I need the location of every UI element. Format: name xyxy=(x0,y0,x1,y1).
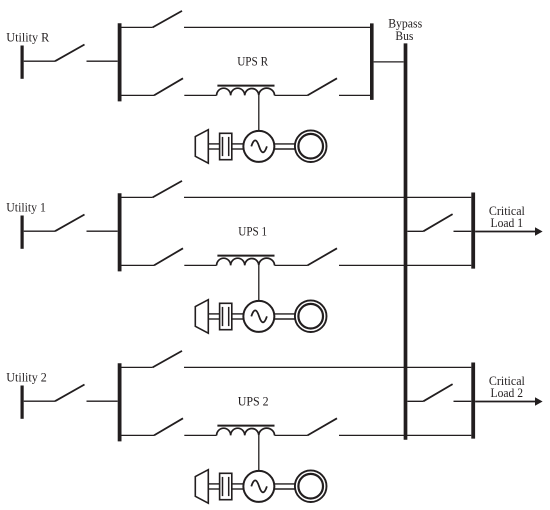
wire: input bus to bypass breaker 1 xyxy=(122,196,153,198)
UPS R input breaker blade xyxy=(154,78,183,95)
wire: input breaker to inductor R xyxy=(184,94,216,96)
UPS 1 input bus xyxy=(118,193,122,271)
svg-text:Utility R: Utility R xyxy=(6,31,50,45)
load breaker 1 blade xyxy=(423,214,452,231)
svg-text:Utility 2: Utility 2 xyxy=(6,371,47,385)
arrow to Critical Load 2 xyxy=(475,397,542,406)
svg-text:UPS 2: UPS 2 xyxy=(238,394,269,408)
Utility R source bus xyxy=(21,46,24,79)
wire: inductor to output breaker R xyxy=(275,94,308,96)
clutch plates 1 xyxy=(223,307,229,326)
wire: bypass branch 2 xyxy=(184,366,471,368)
wire: output breaker 2 to output bus xyxy=(339,434,471,436)
Critical Load 2 bus xyxy=(471,363,475,439)
UPS R input bus xyxy=(118,23,122,101)
svg-text:Bus: Bus xyxy=(395,29,413,43)
flywheel outer rim 1 xyxy=(295,300,327,332)
wire: UPS R output bus to Bypass Bus xyxy=(374,61,404,63)
wire: input bus to UPS R input breaker xyxy=(122,94,155,96)
shaft: engine to clutch R xyxy=(208,144,220,149)
label Critical Load 2 xyxy=(489,374,525,400)
svg-text:Load 2: Load 2 xyxy=(491,386,524,400)
wire: drop from inductor 2 to generator xyxy=(258,435,260,471)
inductor LR winding xyxy=(217,88,275,95)
bypass breaker 1 blade xyxy=(153,181,182,198)
AC motor-generator G2 xyxy=(243,471,274,502)
wire: input bus to bypass breaker 2 xyxy=(122,366,153,368)
wire: input bus to bypass breaker R xyxy=(122,26,153,28)
Utility 1 disconnect switch blade xyxy=(55,215,85,232)
wire: disconnect switch to UPS 1 input bus xyxy=(87,230,118,232)
Utility 1 source bus xyxy=(21,216,24,249)
UPS 1 input breaker blade xyxy=(154,248,183,265)
Bypass Bus xyxy=(404,43,408,439)
load breaker 2 blade xyxy=(423,384,452,401)
sine symbol inside G1 xyxy=(251,310,267,322)
flywheel inner rim 1 xyxy=(298,304,323,329)
wire: input bus to UPS 2 input breaker xyxy=(122,434,155,436)
Utility R disconnect switch blade xyxy=(55,45,85,62)
wire: bypass branch 1 xyxy=(184,196,471,198)
AC motor-generator GR xyxy=(243,131,274,162)
AC motor-generator G1 xyxy=(243,301,274,332)
wire: Utility R to disconnect switch xyxy=(24,60,55,62)
wire: Bypass Bus to load breaker 2 xyxy=(407,400,423,402)
wire: inductor to output breaker 1 xyxy=(275,264,308,266)
sine symbol inside GR xyxy=(251,140,267,152)
svg-text:UPS R: UPS R xyxy=(237,54,268,68)
Critical Load 1 bus xyxy=(471,193,475,269)
svg-text:Load 1: Load 1 xyxy=(491,216,524,230)
inductor L2 winding xyxy=(217,428,275,435)
UPS R output breaker blade xyxy=(308,78,338,95)
wire: load breaker 2 to Critical Load 2 bus xyxy=(454,400,472,402)
Utility 2 source bus xyxy=(21,386,24,419)
shaft: clutch to generator R xyxy=(232,144,244,149)
svg-text:UPS 1: UPS 1 xyxy=(238,224,267,238)
shaft: generator to flywheel 2 xyxy=(274,484,295,489)
Bypass Bus label xyxy=(388,16,422,43)
flywheel outer rim 2 xyxy=(295,470,327,502)
sine symbol inside G2 xyxy=(251,480,267,492)
shaft: generator to flywheel 1 xyxy=(274,314,295,319)
inductor L1 core bar xyxy=(217,255,274,257)
flywheel inner rim 2 xyxy=(298,474,323,499)
clutch / coupling box R xyxy=(220,133,232,159)
shaft: engine to clutch 1 xyxy=(208,314,220,319)
UPS 1 output breaker blade xyxy=(308,248,338,265)
Utility 2 disconnect switch blade xyxy=(55,385,85,402)
inductor L1 winding xyxy=(217,258,275,265)
shaft: clutch to generator 1 xyxy=(232,314,244,319)
shaft: engine to clutch 2 xyxy=(208,484,220,489)
inductor LR core bar xyxy=(217,85,274,87)
flywheel inner rim R xyxy=(298,134,323,159)
clutch / coupling box 1 xyxy=(220,303,232,329)
shaft: clutch to generator 2 xyxy=(232,484,244,489)
UPS 2 input breaker blade xyxy=(154,418,183,435)
inductor L2 core bar xyxy=(217,425,274,427)
wire: Utility 1 to disconnect switch xyxy=(24,230,55,232)
flywheel outer rim R xyxy=(295,130,327,162)
wire: input breaker to inductor 1 xyxy=(184,264,216,266)
clutch plates 2 xyxy=(223,477,229,496)
bypass breaker R blade xyxy=(153,11,182,28)
wire: drop from inductor R to generator xyxy=(258,95,260,131)
wire: inductor to output breaker 2 xyxy=(275,434,308,436)
label Critical Load 1 xyxy=(489,204,525,230)
wire: drop from inductor 1 to generator xyxy=(258,265,260,301)
wire: input breaker to inductor 2 xyxy=(184,434,216,436)
wire: load breaker 1 to Critical Load 1 bus xyxy=(454,230,472,232)
UPS 2 input bus xyxy=(118,363,122,441)
clutch / coupling box 2 xyxy=(220,473,232,499)
wire: Bypass Bus to load breaker 1 xyxy=(407,230,423,232)
wire: input bus to UPS 1 input breaker xyxy=(122,264,155,266)
wire: bypass branch R xyxy=(184,26,370,28)
wire: output breaker 1 to output bus xyxy=(339,264,471,266)
clutch plates R xyxy=(223,137,229,156)
shaft: generator to flywheel R xyxy=(274,144,295,149)
engine (prime mover) of M-G set R xyxy=(195,130,208,164)
UPS 2 output breaker blade xyxy=(308,418,338,435)
wire: output breaker R to output bus xyxy=(339,94,370,96)
svg-text:Utility 1: Utility 1 xyxy=(6,201,46,215)
engine (prime mover) of M-G set 1 xyxy=(195,300,208,334)
UPS R output bus xyxy=(370,23,374,100)
wire: Utility 2 to disconnect switch xyxy=(24,400,55,402)
wire: disconnect switch to UPS 2 input bus xyxy=(87,400,118,402)
arrow to Critical Load 1 xyxy=(475,227,542,236)
bypass breaker 2 blade xyxy=(153,351,182,368)
engine (prime mover) of M-G set 2 xyxy=(195,470,208,504)
wire: disconnect switch to UPS R input bus xyxy=(87,60,118,62)
